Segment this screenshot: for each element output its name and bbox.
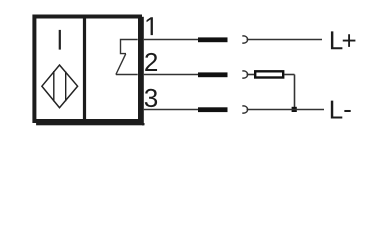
label L+ : plus xyxy=(343,34,356,47)
wire corner down to L- rail xyxy=(294,75,296,110)
cable bar pin3 xyxy=(198,107,228,112)
cable bar pin1 xyxy=(198,37,228,42)
label L- : minus xyxy=(344,110,350,112)
wire pin3 to cable bar xyxy=(144,109,198,111)
pin label 3 xyxy=(145,89,157,107)
label L- : L xyxy=(331,101,342,119)
label L+ : L xyxy=(331,31,342,49)
inductive sensing mark I xyxy=(59,30,61,50)
sensor body shadow right xyxy=(142,17,144,126)
cable bar pin2 xyxy=(198,72,228,77)
connector socket pin2 xyxy=(242,71,247,78)
junction dot xyxy=(292,107,297,112)
wire pin1 to L+ xyxy=(247,39,322,41)
diamond left chord xyxy=(53,71,55,102)
wire pin2 to load resistor xyxy=(247,74,256,76)
pin label 1 xyxy=(147,17,153,35)
proximity switch diamond xyxy=(42,65,78,108)
switch contact: pin2 lead xyxy=(116,74,138,76)
sensor body outline xyxy=(34,17,140,122)
pin label 2 xyxy=(145,53,157,71)
switch contact: pin1 lead with foot xyxy=(121,40,138,54)
wire pin3 to L- xyxy=(247,109,324,111)
wire pin2 to cable bar xyxy=(144,74,198,76)
sensor body shadow bottom xyxy=(36,123,144,125)
switch contact arm xyxy=(116,54,126,75)
load resistor xyxy=(255,71,283,77)
diamond right chord xyxy=(65,72,67,102)
connector socket pin1 xyxy=(242,36,247,43)
divider line xyxy=(83,18,86,119)
wire pin1 to cable bar xyxy=(144,39,198,41)
wire resistor to corner xyxy=(284,74,295,76)
connector socket pin3 xyxy=(242,106,247,113)
